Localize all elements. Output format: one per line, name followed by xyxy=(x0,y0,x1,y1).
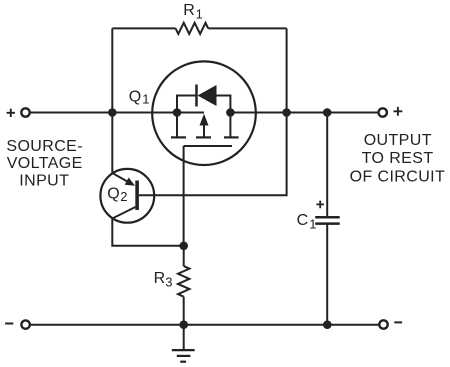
terminal output + (open circle) xyxy=(379,108,387,116)
svg-text:Q: Q xyxy=(129,89,141,106)
svg-text:2: 2 xyxy=(120,189,127,204)
junction dot Q1 source xyxy=(173,108,182,117)
wire C1 top branch xyxy=(326,113,328,217)
wire main positive rail left segment xyxy=(30,112,204,114)
svg-text:OUTPUT: OUTPUT xyxy=(364,132,432,149)
junction dot main rail right (R1) xyxy=(282,108,291,117)
resistor R1 zigzag xyxy=(176,23,209,34)
junction dot bottom rail ground xyxy=(179,320,188,329)
Q1 substrate arrowhead xyxy=(200,114,209,126)
svg-text:VOLTAGE: VOLTAGE xyxy=(7,155,83,172)
wire top segment right of R1 xyxy=(208,27,286,29)
transistor Q1 circle outline xyxy=(152,61,256,165)
Q1 channel bar middle xyxy=(196,136,211,138)
wire left branch vertical (R1 left / Q2 emitter feed) xyxy=(111,28,113,173)
junction dot Q1 drain xyxy=(226,108,235,117)
Q1 body diode cathode bar xyxy=(195,85,198,107)
svg-text:Q: Q xyxy=(107,186,119,203)
junction dot main rail left xyxy=(108,108,117,117)
capacitor C1 top plate xyxy=(315,216,340,219)
label + (C1 polarity sign) xyxy=(316,201,324,209)
Q2 base bar xyxy=(135,181,139,211)
svg-text:SOURCE-: SOURCE- xyxy=(6,138,83,155)
Q2 emitter diagonal xyxy=(112,173,131,184)
svg-text:INPUT: INPUT xyxy=(19,173,69,190)
Q1 substrate arrow line xyxy=(203,122,205,137)
wire right branch vertical (R1 right to main rail to Q2 base) xyxy=(139,28,287,195)
Q1 body diode loop wire xyxy=(177,96,230,113)
wire node A to R3 xyxy=(183,246,185,266)
svg-text:TO REST: TO REST xyxy=(362,150,434,167)
svg-text:C: C xyxy=(297,212,309,229)
ground stem xyxy=(183,325,185,350)
resistor R3 zigzag xyxy=(178,266,189,297)
svg-text:R: R xyxy=(154,270,166,287)
svg-text:1: 1 xyxy=(309,217,316,232)
junction dot node A xyxy=(179,242,188,251)
svg-text:R: R xyxy=(183,2,195,19)
Q1 body diode triangle (anode) xyxy=(198,85,217,106)
wire Q1 gate drop to node A xyxy=(183,146,185,246)
wire C1 bottom branch xyxy=(326,223,328,325)
terminal input + (open circle) xyxy=(21,108,29,116)
junction dot main rail C1 xyxy=(323,108,332,117)
Q1 channel bar left xyxy=(171,136,186,138)
wire bottom rail xyxy=(31,324,379,326)
junction dot bottom rail C1 xyxy=(323,320,332,329)
svg-text:OF CIRCUIT: OF CIRCUIT xyxy=(350,168,446,185)
terminal input - (open circle) xyxy=(21,320,29,328)
label + (input plus sign) xyxy=(7,109,15,117)
svg-text:1: 1 xyxy=(142,92,149,107)
ground bar 2 xyxy=(177,355,191,357)
svg-text:1: 1 xyxy=(196,7,203,22)
wire R3 to bottom rail xyxy=(183,297,185,325)
Q1 drain stub right xyxy=(229,113,231,138)
label + (output plus sign) xyxy=(394,107,403,116)
label - (output minus sign) xyxy=(394,321,402,323)
svg-text:3: 3 xyxy=(165,275,172,290)
Q1 gate line xyxy=(184,145,232,147)
Q1 channel bar right xyxy=(224,136,239,138)
ground bar 3 xyxy=(180,361,186,363)
Q2 collector diagonal xyxy=(112,207,135,219)
terminal output - (open circle) xyxy=(379,320,387,328)
Q2 emitter arrowhead xyxy=(125,178,135,186)
capacitor C1 bottom plate xyxy=(315,222,340,225)
label - (input minus sign) xyxy=(5,323,13,325)
wire main positive rail right segment xyxy=(230,112,377,114)
transistor Q2 circle outline xyxy=(100,169,154,223)
wire Q2 collector to node A xyxy=(112,219,183,246)
Q1 source stub left xyxy=(176,113,178,138)
ground bar 1 xyxy=(172,349,195,351)
wire top segment left of R1 xyxy=(112,27,175,29)
